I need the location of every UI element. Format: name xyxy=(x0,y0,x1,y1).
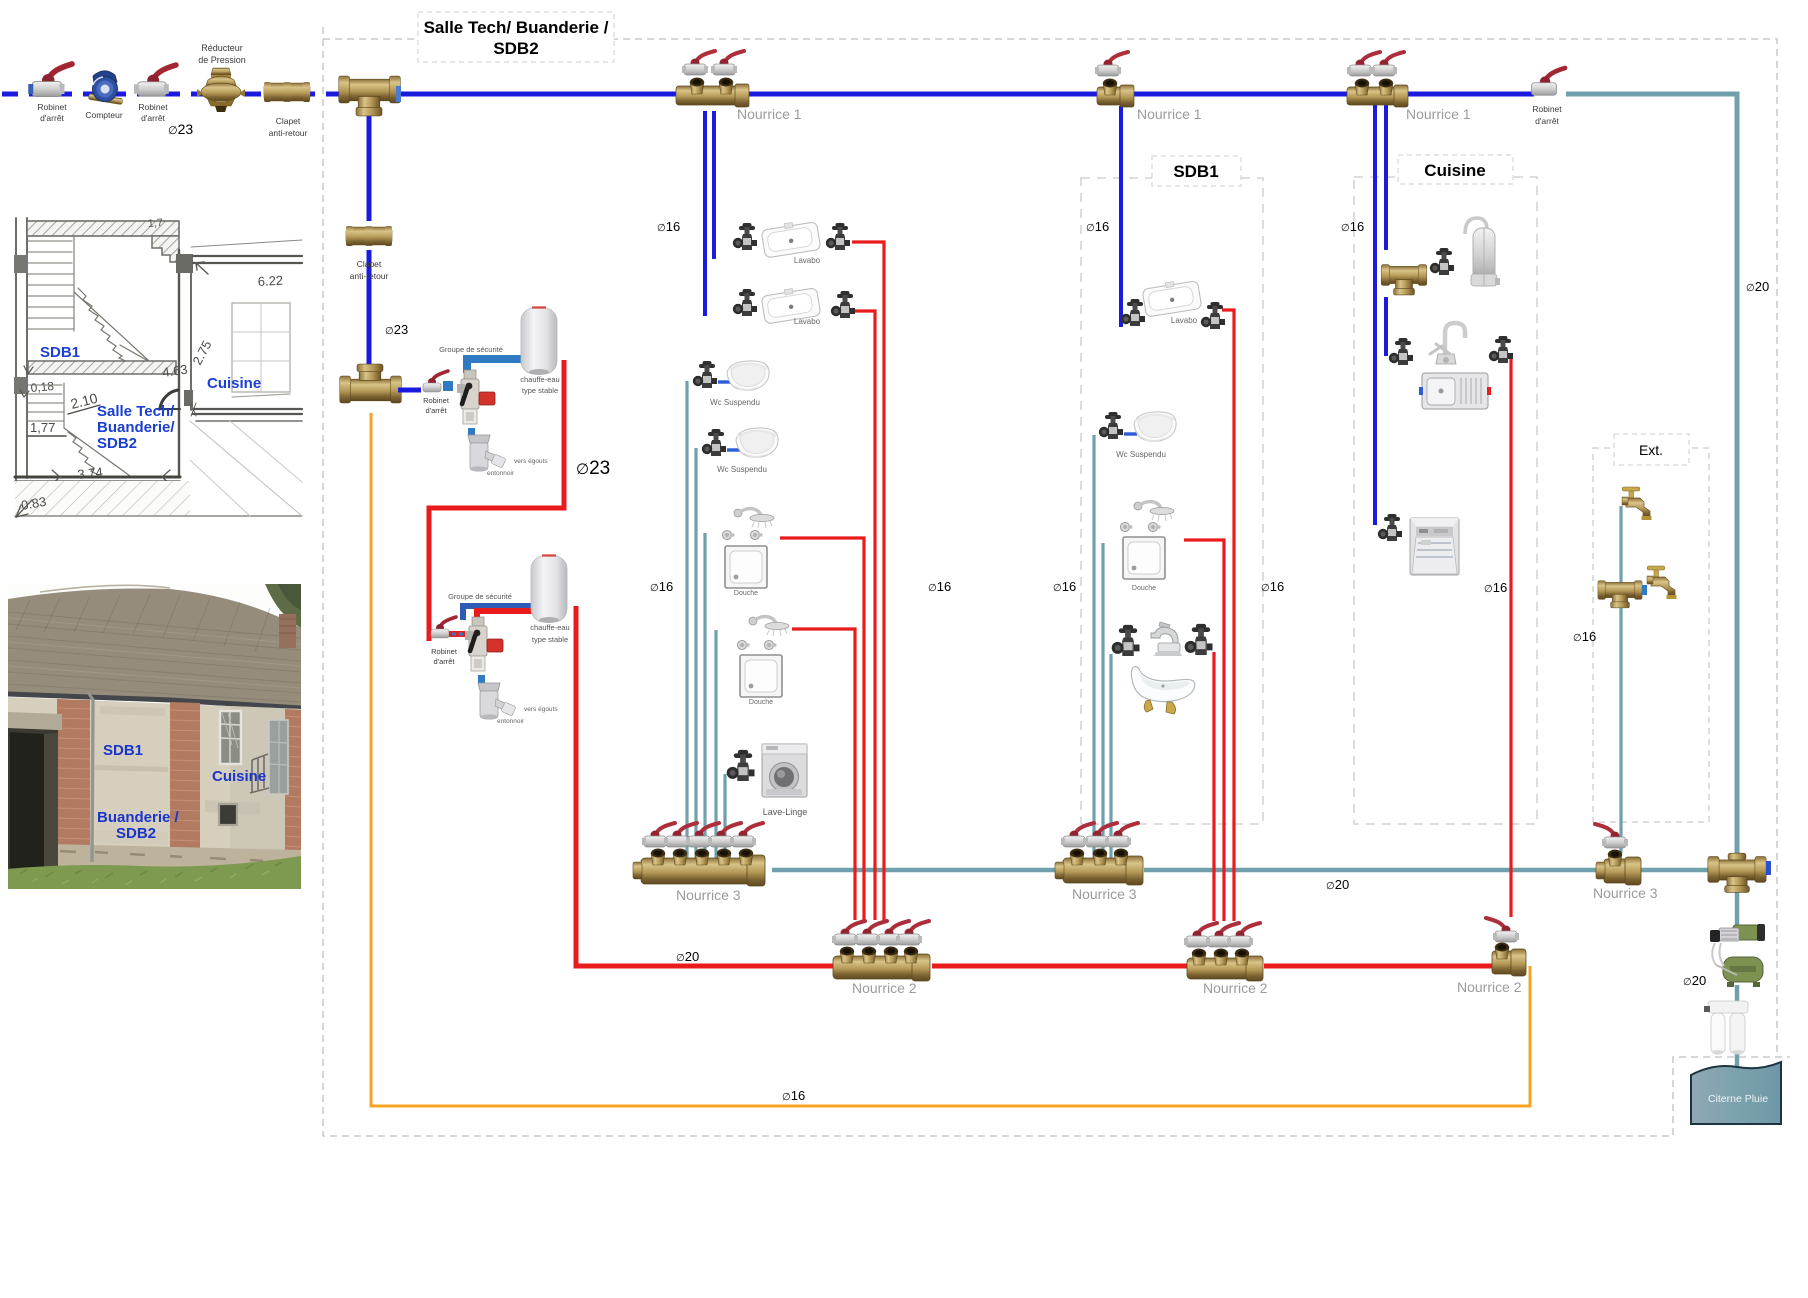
plan top right wall double xyxy=(193,256,302,263)
svg-text:∅16: ∅16 xyxy=(1086,219,1109,234)
svg-text:Lavabo: Lavabo xyxy=(794,256,821,265)
svg-text:anti-retour: anti-retour xyxy=(350,271,389,281)
valve robinet d'arret heater1 xyxy=(423,371,448,392)
lavabo 1 left valve xyxy=(733,223,757,250)
label dia16 set xyxy=(650,219,1596,1103)
svg-text:∅20: ∅20 xyxy=(676,949,699,964)
svg-text:Wc Suspendu: Wc Suspendu xyxy=(717,465,767,474)
douche 2 knobs xyxy=(737,640,749,649)
svg-text:Lave-Linge: Lave-Linge xyxy=(763,807,808,817)
nourrice 3 #3 (1 port, Ext) xyxy=(1595,824,1641,885)
sdb1 bath right tap xyxy=(1185,624,1213,655)
lavabo 2 left valve xyxy=(733,289,757,316)
svg-text:type stable: type stable xyxy=(532,635,568,644)
wire: groupe2 feed pipes (blue+red) xyxy=(463,606,531,620)
sdb1 douche shower head xyxy=(1134,502,1174,521)
svg-text:vers égouts: vers égouts xyxy=(524,706,558,713)
wc 1 bowl xyxy=(727,361,769,391)
cuisine faucet xyxy=(1430,323,1465,364)
nourrice 3 #1 (5 ports) xyxy=(633,823,765,886)
svg-text:entonnoir: entonnoir xyxy=(487,470,515,477)
photo railing xyxy=(250,754,269,793)
svg-text:d'arrêt: d'arrêt xyxy=(40,113,64,123)
svg-text:chauffe-eau: chauffe-eau xyxy=(520,375,559,384)
svg-text:2.75: 2.75 xyxy=(189,338,214,367)
plan upper stairs xyxy=(28,237,74,331)
nourrice 1 #1 (2 ports) xyxy=(676,51,749,107)
svg-text:Robinet: Robinet xyxy=(423,396,450,405)
wire: teal horizontal manifold 3 interconnect xyxy=(772,868,1713,873)
valve robinet d'arret (rainwater switch, top right) xyxy=(1531,68,1565,95)
svg-text:Nourrice 2: Nourrice 2 xyxy=(1457,979,1522,995)
nourrice 2 #3 (1 port, loop end) xyxy=(1486,918,1526,976)
sdb1 bath left tap xyxy=(1112,625,1140,656)
svg-text:Cuisine: Cuisine xyxy=(212,768,266,785)
svg-text:Clapet: Clapet xyxy=(357,259,382,269)
svg-text:1,77: 1,77 xyxy=(30,420,55,435)
svg-text:Salle Tech/: Salle Tech/ xyxy=(97,403,175,420)
chauffe-eau 1 xyxy=(521,308,557,376)
wc 2 valve xyxy=(702,429,726,456)
sdb1 douche knobs xyxy=(1120,522,1132,531)
nourrice 1 #3 (2 ports) xyxy=(1347,52,1408,107)
valve robinet d'arret heater2 xyxy=(431,617,456,638)
sdb1 wc valve xyxy=(1099,412,1123,439)
svg-text:Robinet: Robinet xyxy=(138,102,168,112)
cuisine dishwasher valve xyxy=(1378,514,1402,541)
svg-text:SDB2: SDB2 xyxy=(97,435,137,452)
svg-text:Nourrice 1: Nourrice 1 xyxy=(1406,106,1471,122)
svg-text:Wc Suspendu: Wc Suspendu xyxy=(710,398,760,407)
svg-text:Nourrice 3: Nourrice 3 xyxy=(676,887,741,903)
svg-text:Ext.: Ext. xyxy=(1639,442,1663,458)
plan bottom wall xyxy=(15,476,180,479)
house photo xyxy=(8,584,301,889)
svg-text:∅16: ∅16 xyxy=(782,1088,805,1103)
cuisine sink (top view) xyxy=(1419,373,1491,409)
groupe de securite 2 xyxy=(465,617,503,671)
plan mid hatched band xyxy=(28,361,176,374)
svg-text:0,18: 0,18 xyxy=(30,379,55,395)
title box Salle Tech/Buanderie/SDB2 xyxy=(418,12,614,62)
double filter (rainwater) xyxy=(1704,1001,1748,1054)
cuisine filter valve xyxy=(1430,248,1454,275)
wire: teal vertical Ext xyxy=(1619,506,1622,853)
svg-text:d'arrêt: d'arrêt xyxy=(1535,116,1559,126)
sdb1 bathtub xyxy=(1131,667,1194,714)
svg-text:3.74: 3.74 xyxy=(77,464,104,482)
sdb1 lavabo sink xyxy=(1142,278,1202,317)
photo downpipe xyxy=(92,700,93,862)
pump (rainwater booster) xyxy=(1710,924,1765,987)
plan left double wall xyxy=(16,218,27,517)
clapet anti-retour (check valve, horizontal) xyxy=(264,82,310,102)
photo doorway xyxy=(8,712,62,730)
photo small window xyxy=(219,804,237,825)
wire: groupe1 cold feed pipe (steel blue) xyxy=(467,359,521,373)
svg-text:∅20: ∅20 xyxy=(1746,279,1769,294)
svg-text:de Pression: de Pression xyxy=(198,55,246,65)
red connector to groupe2 xyxy=(449,631,468,637)
svg-text:Groupe de sécurité: Groupe de sécurité xyxy=(448,592,512,601)
plan bottom hatch zone xyxy=(15,481,190,516)
wc 1 blue stub xyxy=(718,380,731,383)
lavabo 2 right valve xyxy=(831,291,855,318)
photo right door xyxy=(269,720,288,794)
chauffe-eau 2 xyxy=(531,556,567,624)
svg-text:∅20: ∅20 xyxy=(1683,973,1706,988)
svg-text:1,7: 1,7 xyxy=(147,217,163,230)
cuisine dishwasher xyxy=(1410,518,1459,575)
wire: blue stub tee2 to robinet xyxy=(398,388,421,393)
tee T5 (pump top tee, bottom right) xyxy=(1708,853,1766,892)
Cuisine zone dashed box xyxy=(1354,177,1537,824)
photo window cuisine xyxy=(220,711,241,764)
svg-text:type stable: type stable xyxy=(522,386,558,395)
svg-text:6.22: 6.22 xyxy=(257,273,283,289)
cuisine sink right valve xyxy=(1489,336,1513,363)
valve robinet d'arret 2 xyxy=(134,65,176,96)
entonnoir 1 (siphon) xyxy=(468,428,475,437)
valve robinet d'arret 1 (city side) xyxy=(28,64,72,97)
wire: blue vertical SDB1 xyxy=(1119,106,1123,327)
svg-text:Nourrice 2: Nourrice 2 xyxy=(852,980,917,996)
lavabo 1 sink xyxy=(761,219,821,258)
nourrice 2 #2 (3 ports, SDB1) xyxy=(1184,923,1263,981)
douche 2 tray xyxy=(740,655,782,697)
svg-text:∅16: ∅16 xyxy=(1341,219,1364,234)
svg-text:entonnoir: entonnoir xyxy=(497,718,525,725)
wire: red hot main from heater2 to nourrice2 row xyxy=(576,606,833,966)
svg-text:Nourrice 1: Nourrice 1 xyxy=(737,106,802,122)
svg-text:∅16: ∅16 xyxy=(928,579,951,594)
photo chimney xyxy=(279,614,296,648)
douche 1 shower head xyxy=(734,509,774,528)
plan center vertical wall xyxy=(178,250,180,477)
douche 1 tray xyxy=(725,546,767,588)
wire: blue stubs nourrice1-1 outlets xyxy=(703,111,707,316)
main outer dashed border (Salle Tech / whole installation) xyxy=(323,27,1790,1136)
wire: teal pump column segments xyxy=(1735,888,1740,1067)
svg-text:∅16: ∅16 xyxy=(650,579,673,594)
wire: teal rainwater main from robinet to right column xyxy=(1566,94,1737,855)
svg-text:∅16: ∅16 xyxy=(1261,579,1284,594)
tee T1 (main entry tee) xyxy=(339,76,401,116)
svg-text:Robinet: Robinet xyxy=(431,647,458,656)
svg-text:Douche: Douche xyxy=(749,699,773,706)
svg-text:Compteur: Compteur xyxy=(85,110,122,120)
svg-text:Clapet: Clapet xyxy=(276,116,301,126)
nourrice 1 #2 (1 port) xyxy=(1095,52,1134,107)
svg-text:∅16: ∅16 xyxy=(1053,579,1076,594)
sdb1 lavabo right valve xyxy=(1201,302,1225,329)
clapet anti-retour 2 (vertical run) xyxy=(346,226,392,246)
svg-text:Douche: Douche xyxy=(1132,585,1156,592)
title box Ext. xyxy=(1614,434,1689,465)
wire: red hot water heater1 down-left-down xyxy=(429,360,564,641)
wire: teal verticals center column (wc/douche/lave-linge) xyxy=(687,381,725,858)
svg-text:d'arrêt: d'arrêt xyxy=(425,406,447,415)
svg-text:Groupe de sécurité: Groupe de sécurité xyxy=(439,345,503,354)
svg-text:SDB1: SDB1 xyxy=(103,742,143,759)
svg-text:Robinet: Robinet xyxy=(1532,104,1562,114)
plan top stepped wall detail xyxy=(152,236,179,262)
sdb1 lavabo left valve xyxy=(1121,299,1145,326)
plan lower stairs xyxy=(28,383,64,428)
tee T4 (Ext tap tee) xyxy=(1598,581,1642,608)
svg-text:chauffe-eau: chauffe-eau xyxy=(530,623,569,632)
wire: blue dashed city supply line xyxy=(2,92,340,97)
wire: teal verticals SDB1 xyxy=(1094,435,1111,858)
cuisine sink left valve xyxy=(1389,338,1413,365)
svg-text:vers égouts: vers égouts xyxy=(514,458,548,465)
cuisine water filter xyxy=(1465,218,1500,286)
entonnoir 2 (siphon) xyxy=(478,675,485,684)
lavabo 2 sink xyxy=(761,285,821,324)
plan wall junction blocks xyxy=(14,255,28,273)
sdb1 wc blue stub xyxy=(1124,432,1137,435)
photo grass xyxy=(8,856,301,889)
svg-text:∅16: ∅16 xyxy=(1484,580,1507,595)
svg-text:∅23: ∅23 xyxy=(385,322,408,337)
nourrice 3 #2 (3 ports, SDB1) xyxy=(1055,823,1143,885)
plan stair diagonal upper xyxy=(74,288,150,362)
plan arrow+note 6.22 xyxy=(196,262,208,274)
photo wall xyxy=(8,697,301,874)
svg-text:Cuisine: Cuisine xyxy=(207,375,261,392)
wc 2 blue stub xyxy=(727,448,740,451)
compteur (water meter) xyxy=(88,71,123,105)
svg-text:Buanderie /: Buanderie / xyxy=(97,809,180,826)
floor plan sketch (hand drawn) xyxy=(14,217,302,517)
svg-text:Wc Suspendu: Wc Suspendu xyxy=(1116,450,1166,459)
wire: blue vertical tee1 to clapet xyxy=(367,114,372,221)
svg-text:Lavabo: Lavabo xyxy=(794,317,821,326)
svg-text:4.63: 4.63 xyxy=(161,362,188,380)
reducteur de pression xyxy=(197,68,245,112)
svg-text:d'arrêt: d'arrêt xyxy=(141,113,165,123)
wc 2 bowl xyxy=(736,428,778,458)
svg-text:SDB1: SDB1 xyxy=(1173,162,1218,181)
SDB1 zone dashed box xyxy=(1081,178,1263,824)
svg-text:anti-retour: anti-retour xyxy=(269,128,308,138)
groupe de securite 1 xyxy=(457,370,495,424)
svg-text:Nourrice 1: Nourrice 1 xyxy=(1137,106,1202,122)
svg-text:SDB1: SDB1 xyxy=(40,344,80,361)
blue connector to groupe1 xyxy=(443,381,453,391)
plan cuisine window xyxy=(232,303,290,392)
tee T2 (heater branch tee) xyxy=(340,364,402,403)
photo gutter xyxy=(8,694,301,708)
svg-text:∅16: ∅16 xyxy=(657,219,680,234)
plan top wall hatched xyxy=(27,221,179,236)
lave-linge valve xyxy=(727,750,755,781)
photo wall texture patches xyxy=(95,765,168,772)
photo tree xyxy=(265,584,301,628)
lave-linge washer xyxy=(762,744,807,797)
svg-text:Nourrice 3: Nourrice 3 xyxy=(1593,885,1658,901)
sdb1 bath mixer xyxy=(1151,622,1182,656)
sdb1 douche tray xyxy=(1123,537,1165,579)
wire: red riser Cuisine to nourrice2-3 xyxy=(1509,356,1512,917)
plan stair diagonal lower xyxy=(64,428,130,476)
wire: blue vertical clapet to tee2 xyxy=(367,250,372,365)
label dia20 set xyxy=(676,279,1769,988)
svg-text:Lavabo: Lavabo xyxy=(1171,316,1198,325)
garden tap Ext 1 xyxy=(1622,487,1652,520)
photo roof xyxy=(8,588,301,709)
label nourrice names xyxy=(676,106,1658,996)
wire: blue main cold distribution xyxy=(396,92,1534,97)
sdb1 wc bowl xyxy=(1134,412,1176,442)
connector tick at tee T1 xyxy=(396,86,401,102)
tee T3 (cuisine filter tee) xyxy=(1381,265,1427,295)
citerne pluie tank xyxy=(1691,1062,1781,1124)
svg-text:SDB2: SDB2 xyxy=(116,825,156,842)
svg-text:Citerne Pluie: Citerne Pluie xyxy=(1708,1093,1768,1105)
svg-text:Douche: Douche xyxy=(734,590,758,597)
title box Cuisine xyxy=(1398,155,1513,184)
douche 1 knobs xyxy=(722,530,734,539)
wire: red risers SDB1 xyxy=(1184,310,1234,921)
svg-text:Nourrice 2: Nourrice 2 xyxy=(1203,980,1268,996)
lavabo 1 right valve xyxy=(826,223,850,250)
svg-text:SDB2: SDB2 xyxy=(493,39,538,58)
wire: blue verticals Cuisine xyxy=(1373,105,1377,525)
svg-text:∅23: ∅23 xyxy=(168,121,193,137)
svg-text:Nourrice 3: Nourrice 3 xyxy=(1072,886,1137,902)
svg-text:Robinet: Robinet xyxy=(37,102,67,112)
wire: red risers center column xyxy=(780,242,884,920)
svg-text:∅20: ∅20 xyxy=(1326,877,1349,892)
svg-text:∅23: ∅23 xyxy=(576,458,610,479)
wc 1 valve xyxy=(693,361,717,388)
photo wall stone base xyxy=(8,843,301,874)
Ext zone dashed box xyxy=(1593,448,1709,822)
garden tap Ext 2 xyxy=(1647,566,1677,599)
svg-text:Buanderie/: Buanderie/ xyxy=(97,419,175,436)
svg-text:∅16: ∅16 xyxy=(1573,629,1596,644)
title box SDB1 xyxy=(1152,156,1241,186)
photo brick pilasters xyxy=(57,699,301,874)
plan right mid wall xyxy=(193,409,302,414)
wire: orange recirculation loop xyxy=(371,413,1530,1106)
svg-text:Réducteur: Réducteur xyxy=(201,43,243,53)
svg-text:2.10: 2.10 xyxy=(69,390,100,412)
nourrice 2 #1 (4 ports) xyxy=(832,921,930,981)
svg-text:d'arrêt: d'arrêt xyxy=(433,657,455,666)
svg-text:Salle Tech/ Buanderie /: Salle Tech/ Buanderie / xyxy=(424,18,609,37)
svg-text:Cuisine: Cuisine xyxy=(1424,161,1485,180)
douche 2 shower head xyxy=(749,617,789,636)
plan door arc xyxy=(160,390,178,408)
